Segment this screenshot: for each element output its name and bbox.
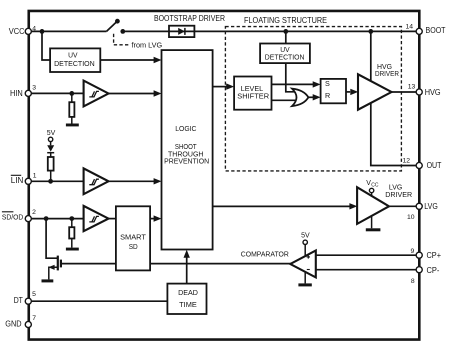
- op-amp LVG driver: [357, 187, 389, 224]
- pin HVG: [416, 89, 422, 95]
- comparator U2: [290, 251, 316, 278]
- svg-text:BOOTSTRAP DRIVER: BOOTSTRAP DRIVER: [154, 14, 225, 23]
- UV detection box (floating): [260, 44, 310, 64]
- svg-text:HIN: HIN: [10, 89, 23, 98]
- svg-text:SHIFTER: SHIFTER: [237, 92, 269, 101]
- svg-text:2: 2: [32, 209, 36, 216]
- node LIN: [48, 179, 53, 184]
- ground LVG: [371, 216, 373, 229]
- svg-text:5V: 5V: [47, 130, 56, 137]
- svg-text:CP+: CP+: [427, 251, 442, 260]
- switch contact dot right: [120, 29, 125, 34]
- svg-text:14: 14: [406, 23, 414, 30]
- svg-text:S: S: [325, 79, 330, 88]
- svg-text:1: 1: [33, 173, 37, 180]
- svg-text:GND: GND: [5, 320, 22, 329]
- ground: [42, 279, 54, 282]
- wire UV floating to OR: [286, 63, 296, 92]
- switch arm: [107, 21, 118, 31]
- wire CP+: [316, 254, 419, 256]
- svg-text:LOGIC: LOGIC: [175, 126, 196, 133]
- wire UV detection to logic: [100, 59, 154, 61]
- ground: [66, 124, 79, 127]
- svg-text:SD/OD: SD/OD: [2, 213, 24, 222]
- wire schmitt HIN to logic: [109, 93, 155, 95]
- op-amp HVG driver: [358, 74, 392, 109]
- pin LVG: [416, 203, 422, 209]
- svg-text:VCC: VCC: [9, 27, 25, 36]
- pin SD/OD: [25, 216, 31, 222]
- svg-text:CC: CC: [371, 183, 379, 189]
- node HIN resistor: [69, 91, 74, 96]
- wire dead time to logic: [186, 257, 188, 284]
- svg-text:HVG: HVG: [425, 88, 441, 97]
- svg-text:LIN: LIN: [11, 176, 24, 185]
- pin CP-: [416, 267, 422, 273]
- pin OUT: [416, 162, 422, 168]
- wire smart sd to logic: [150, 218, 154, 220]
- svg-text:DETECTION: DETECTION: [54, 59, 95, 68]
- ground comparator: [304, 272, 306, 284]
- svg-text:BOOT: BOOT: [426, 26, 446, 35]
- bootstrap driver box: [169, 26, 194, 37]
- svg-text:TIME: TIME: [179, 300, 197, 309]
- svg-text:SMART: SMART: [120, 233, 146, 242]
- wire OR to R: [308, 96, 313, 98]
- svg-text:R: R: [325, 91, 330, 100]
- node VCC branch: [40, 29, 45, 34]
- diode D1 bootstrap: [178, 28, 185, 35]
- svg-text:3: 3: [32, 84, 36, 91]
- wire CP-: [316, 269, 419, 271]
- UV detection box (low side): [50, 48, 100, 72]
- block LOGIC: [162, 50, 213, 249]
- switch contact dot upper: [115, 19, 120, 24]
- resistor LIN pullup: [48, 157, 54, 171]
- schmitt trigger HIN: [84, 81, 109, 107]
- pin BOOT: [416, 28, 422, 34]
- floating rail to OUT: [371, 31, 419, 165]
- transistor M1 open drain: [46, 219, 57, 259]
- block SMART SD: [116, 206, 150, 270]
- wire VCC to UV detection: [42, 31, 50, 60]
- svg-text:7: 7: [32, 315, 36, 322]
- wire level shifter to OR: [272, 99, 297, 101]
- svg-text:8: 8: [411, 278, 415, 285]
- diode D2: [47, 145, 54, 151]
- wire LIN: [28, 180, 83, 182]
- wire HIN: [28, 92, 83, 94]
- OR gate: [292, 89, 308, 107]
- wire LVG out: [389, 205, 419, 207]
- schmitt trigger LIN: [84, 168, 109, 194]
- svg-text:5: 5: [32, 291, 36, 298]
- svg-text:9: 9: [411, 248, 415, 255]
- dashed from LVG: [114, 34, 129, 45]
- svg-text:DRIVER: DRIVER: [385, 190, 412, 199]
- svg-text:12: 12: [402, 158, 410, 165]
- svg-text:LVG: LVG: [424, 202, 438, 211]
- floating structure dashed box: [225, 27, 401, 171]
- node HVG rail branch: [368, 29, 373, 34]
- svg-text:DRIVER: DRIVER: [375, 69, 399, 78]
- node UV floating branch: [283, 29, 288, 34]
- svg-text:DT: DT: [14, 296, 23, 305]
- svg-text:from LVG: from LVG: [132, 41, 163, 50]
- resistor SD pulldown: [71, 219, 73, 228]
- node SD mosfet: [44, 216, 49, 221]
- pin LIN: [25, 178, 31, 184]
- wire schmitt SD to smart sd: [109, 218, 116, 220]
- 5V terminal: [303, 240, 307, 244]
- pin HIN: [25, 90, 31, 96]
- pin CP+: [416, 252, 422, 258]
- wire UV floating branch: [285, 31, 287, 43]
- svg-text:10: 10: [407, 214, 415, 221]
- wire to BOOT: [123, 30, 419, 32]
- svg-text:SHOOT: SHOOT: [175, 144, 197, 151]
- block DEAD TIME: [167, 284, 206, 314]
- schmitt trigger SD: [84, 206, 109, 231]
- wire SD/OD: [28, 218, 83, 220]
- svg-text:CP-: CP-: [427, 266, 440, 275]
- svg-text:SD: SD: [129, 242, 138, 251]
- wire VCC rail top: [28, 30, 106, 32]
- svg-text:THROUGH: THROUGH: [168, 151, 204, 158]
- svg-text:COMPARATOR: COMPARATOR: [241, 250, 289, 259]
- node SD resistor: [69, 216, 74, 221]
- svg-text:5V: 5V: [301, 233, 310, 240]
- svg-text:DEAD: DEAD: [178, 288, 198, 297]
- pin DT: [25, 298, 31, 304]
- ground: [66, 248, 79, 251]
- resistor HIN pulldown: [71, 93, 73, 102]
- latch S R: [321, 79, 346, 103]
- wire schmitt LIN to logic: [109, 180, 155, 182]
- svg-text:13: 13: [408, 84, 416, 91]
- wire HVG out: [392, 91, 420, 93]
- svg-text:OUT: OUT: [427, 161, 442, 170]
- block LEVEL SHIFTER: [234, 77, 271, 110]
- wire latch to HVG driver: [346, 91, 350, 93]
- Vcc terminal LVG: [371, 193, 373, 197]
- pin GND: [25, 321, 31, 327]
- pin VCC: [25, 28, 31, 34]
- wire logic to level shifter: [213, 86, 227, 88]
- svg-text:PREVENTION: PREVENTION: [164, 159, 209, 166]
- comparator output line to mosfet gate: [61, 263, 292, 265]
- svg-text:DETECTION: DETECTION: [265, 52, 305, 61]
- wire level shifter to S: [272, 83, 314, 85]
- svg-text:FLOATING STRUCTURE: FLOATING STRUCTURE: [244, 16, 327, 25]
- wire DT: [28, 300, 167, 302]
- 5V terminal: [48, 137, 52, 141]
- svg-text:4: 4: [32, 25, 36, 32]
- wire logic to LVG driver: [213, 205, 350, 207]
